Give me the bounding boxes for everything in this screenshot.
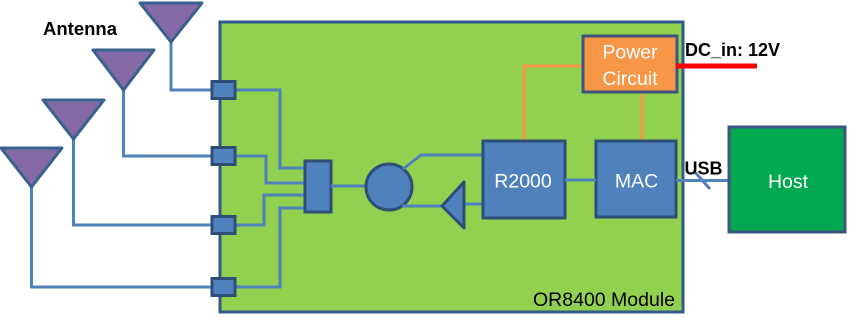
svg-text:MAC: MAC bbox=[615, 171, 658, 193]
wire MAC to Host (USB) bbox=[676, 179, 729, 182]
orange wire power to R2000 bbox=[524, 66, 583, 141]
svg-text:USB: USB bbox=[685, 159, 723, 179]
antenna ANT2 bbox=[93, 50, 154, 90]
antenna ANT1 bbox=[140, 3, 202, 42]
block MAC bbox=[596, 141, 676, 217]
wire amp to mixer (RX path) bbox=[402, 205, 443, 208]
antenna ANT3 bbox=[43, 100, 104, 139]
red wire DC in bbox=[676, 64, 757, 69]
power circuit block bbox=[583, 36, 677, 92]
connector square J2 bbox=[212, 148, 235, 165]
antenna ANT4 bbox=[1, 148, 62, 187]
module box OR8400 bbox=[220, 22, 683, 312]
mixer circle bbox=[366, 164, 412, 210]
svg-text:R2000: R2000 bbox=[494, 171, 552, 193]
orange wire power to MAC bbox=[641, 92, 644, 141]
bus slash bbox=[694, 171, 710, 189]
svg-text:DC_in: 12V: DC_in: 12V bbox=[685, 40, 780, 60]
wire connector1 to combiner bbox=[234, 90, 306, 168]
svg-text:Power: Power bbox=[602, 42, 658, 64]
connector square J4 bbox=[212, 279, 235, 296]
wire mixer to R2000 (TX path) bbox=[403, 155, 483, 169]
block Host bbox=[729, 127, 845, 232]
wire R2000 to MAC bbox=[565, 179, 596, 182]
wire combiner to mixer bbox=[331, 185, 366, 188]
svg-text:Antenna: Antenna bbox=[43, 18, 118, 39]
combiner block bbox=[305, 161, 331, 212]
wire connector2 to combiner bbox=[234, 156, 306, 183]
wire connector4 to combiner bbox=[234, 208, 306, 287]
amplifier triangle bbox=[442, 182, 464, 228]
wire antenna3 to connector3 bbox=[74, 138, 214, 225]
block R2000 bbox=[483, 141, 565, 218]
svg-text:Circuit: Circuit bbox=[602, 68, 658, 90]
connector square J3 bbox=[212, 217, 235, 234]
wire connector3 to combiner bbox=[234, 195, 306, 225]
svg-text:Host: Host bbox=[768, 171, 809, 193]
svg-text:OR8400 Module: OR8400 Module bbox=[533, 289, 675, 311]
wire antenna2 to connector2 bbox=[124, 89, 214, 156]
wire antenna1 to connector1 bbox=[171, 40, 213, 90]
connector square J1 bbox=[212, 82, 235, 99]
wire antenna4 to connector4 bbox=[32, 186, 214, 287]
wire R2000 to amp bbox=[464, 203, 483, 206]
